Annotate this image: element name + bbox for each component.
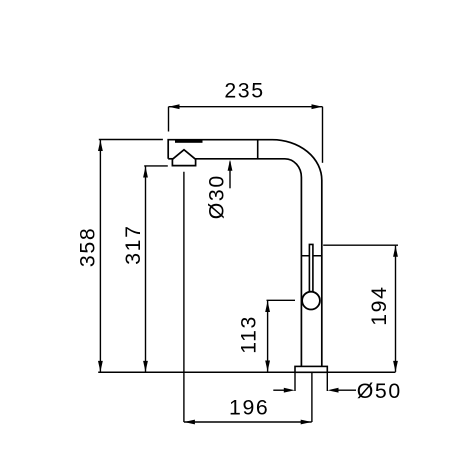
dim 235 left arrow [169, 104, 180, 109]
column center extension line [311, 372, 313, 422]
dim 317 line [145, 167, 147, 372]
svg-text:194: 194 [367, 285, 391, 325]
lever rod [309, 244, 313, 292]
dim 358 extension [99, 139, 163, 141]
svg-text:196: 196 [229, 395, 269, 419]
dim 317 top arrow [143, 167, 148, 178]
dim 113 top extension [267, 299, 296, 301]
dim 194 top arrow [393, 246, 398, 257]
svg-text:Ø50: Ø50 [357, 379, 402, 403]
faucet spout outline [168, 140, 322, 367]
svg-text:Ø30: Ø30 [205, 174, 229, 219]
dim 196 line [184, 421, 312, 423]
svg-text:358: 358 [76, 227, 100, 267]
dim 196 left arrow [184, 420, 195, 425]
dim 113 bottom arrow [265, 361, 270, 372]
svg-text:235: 235 [224, 79, 264, 103]
flange extension lines [295, 372, 327, 391]
dim 358 top arrow [98, 140, 103, 151]
dim 196 right arrow [301, 420, 312, 425]
dim D50 left arrow tail [273, 389, 285, 391]
deck line [98, 371, 395, 373]
dim 235 right arrow [312, 104, 323, 109]
svg-text:113: 113 [236, 315, 260, 354]
dim 113 top arrow [265, 301, 270, 312]
dim D50 left arrowhead [284, 388, 295, 393]
dim 194 bottom arrow [393, 361, 398, 372]
dim 194 line [395, 246, 397, 372]
dim 196 left extension [183, 172, 185, 422]
dim 113 line [267, 301, 269, 372]
aerator bar [175, 140, 203, 143]
dim D30 arrowhead [228, 160, 233, 171]
body seam [301, 255, 321, 257]
dim D30 arrow line [229, 162, 231, 189]
lever ball [302, 292, 320, 310]
dim 317 extension [144, 165, 168, 167]
dim 235 right extension [322, 107, 324, 163]
dim D50 right arrowhead [328, 388, 339, 393]
dim 235 left extension [168, 107, 170, 132]
dim 358 line [99, 140, 101, 372]
dim 317 bottom arrow [143, 361, 148, 372]
dim D50 right arrow tail [337, 389, 356, 391]
base flange [295, 366, 327, 372]
svg-text:317: 317 [121, 224, 145, 264]
dim 358 bottom arrow [98, 361, 103, 372]
spray head seam [257, 140, 259, 159]
dim 194 top extension [323, 244, 398, 246]
dim 235 line [169, 106, 323, 108]
spray tip pentagon [172, 150, 195, 166]
